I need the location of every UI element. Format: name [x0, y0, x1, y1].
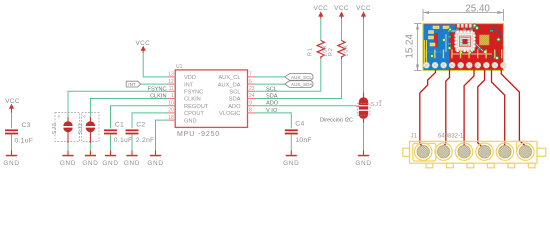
svg-text:VLOGIC: VLOGIC: [219, 111, 241, 117]
ground (under SJ1): [355, 151, 371, 167]
svg-text:9: 9: [249, 100, 252, 106]
svg-text:2.2nF: 2.2nF: [136, 137, 155, 144]
svg-text:R2: R2: [328, 47, 334, 56]
svg-text:10: 10: [168, 100, 174, 106]
svg-text:VCC: VCC: [135, 40, 150, 47]
svg-text:18: 18: [168, 115, 174, 121]
PCB board image: [423, 24, 506, 71]
ground (under C1): [102, 151, 118, 167]
svg-text:10nF: 10nF: [295, 137, 312, 144]
ground (under C2): [124, 151, 140, 167]
svg-text:SJ3: SJ3: [52, 122, 58, 134]
svg-text:AUX_DA: AUX_DA: [218, 82, 241, 88]
ground (under C3): [3, 151, 19, 167]
svg-text:VCC: VCC: [5, 98, 20, 105]
solder jumper SJ1 (3 pads): [356, 93, 382, 123]
svg-text:C4: C4: [295, 121, 304, 128]
svg-text:8: 8: [249, 108, 252, 114]
wire GND (pin 18 down): [156, 120, 168, 151]
svg-text:ADO: ADO: [266, 101, 279, 107]
resistor R2 10K: [328, 41, 349, 59]
svg-text:SDA: SDA: [229, 97, 241, 103]
svg-text:12: 12: [168, 79, 174, 85]
svg-text:GND: GND: [184, 118, 197, 124]
trace T6: [501, 70, 525, 146]
net flag AUX_SDA: [285, 81, 314, 88]
white silk bits: [446, 31, 492, 54]
svg-text:INT: INT: [184, 82, 194, 88]
svg-text:GND: GND: [60, 160, 76, 167]
svg-text:U1: U1: [176, 64, 183, 70]
svg-text:15.24: 15.24: [404, 33, 415, 58]
svg-text:SJ2: SJ2: [78, 122, 84, 134]
wire C2 to GND: [131, 134, 133, 150]
dimension 15.24 (vertical): [414, 24, 422, 71]
svg-text:0.1uF: 0.1uF: [114, 137, 133, 144]
svg-text:GND: GND: [147, 160, 163, 167]
svg-text:V IO: V IO: [266, 108, 278, 114]
power VCC (above IC): [135, 40, 150, 53]
svg-text:Dirección I2C: Dirección I2C: [320, 117, 353, 123]
svg-text:0.1uF: 0.1uF: [15, 137, 34, 144]
wire SJ1 to GND: [363, 123, 365, 151]
trace T1: [420, 70, 436, 147]
wire C4 to GND: [290, 134, 292, 150]
wire CPOUT (pin 20 to C2): [132, 113, 167, 128]
svg-text:GND: GND: [124, 160, 140, 167]
wire C3 to GND: [11, 134, 13, 150]
wire SJ2 to GND: [89, 143, 91, 150]
svg-text:SJ1: SJ1: [371, 102, 383, 108]
wire VDD (VCC to pin 13): [143, 53, 167, 77]
small parts on blue: [429, 26, 450, 46]
svg-text:C2: C2: [136, 121, 145, 128]
trace T2: [444, 70, 450, 146]
svg-text:FSYNC: FSYNC: [148, 86, 167, 92]
solder jumper SJ3: [52, 113, 79, 144]
wire AUX_DA (pin 6 to flag): [256, 83, 285, 85]
ground (under SJ2): [82, 151, 98, 167]
svg-text:640832-1: 640832-1: [438, 134, 464, 140]
wire C1 to GND: [110, 134, 112, 150]
svg-text:INT: INT: [128, 82, 136, 87]
svg-text:C1: C1: [115, 121, 124, 128]
svg-text:AUX_CL: AUX_CL: [218, 75, 240, 81]
svg-text:GND: GND: [3, 160, 19, 167]
dimension 25.40 (horizontal): [423, 9, 504, 21]
vias: [431, 24, 501, 60]
svg-text:CLKIN: CLKIN: [150, 94, 166, 100]
QFN footprint center: [456, 32, 475, 51]
capacitor C4: [285, 121, 312, 144]
wire SCL (pin 23 to R1): [256, 59, 321, 92]
wire INT (flag to pin 12): [141, 83, 167, 85]
capacitor C1: [104, 121, 132, 143]
svg-text:MPU -9250: MPU -9250: [177, 131, 220, 138]
capacitor C3: [5, 122, 33, 144]
net flag AUX_SCL: [285, 74, 313, 81]
pin numbers left: [168, 72, 174, 121]
ground (under IC pin 18): [147, 151, 163, 167]
svg-text:25.40: 25.40: [465, 4, 490, 15]
svg-text:CPOUT: CPOUT: [184, 111, 204, 117]
svg-text:23: 23: [249, 86, 255, 92]
connector J1 640832-1: [403, 134, 546, 168]
svg-text:SCL: SCL: [229, 90, 240, 96]
power VCC (above SJ1): [356, 5, 371, 19]
svg-text:VCC: VCC: [356, 5, 371, 12]
svg-text:REGOUT: REGOUT: [184, 104, 209, 110]
wire SDA (pin 24 to R2): [256, 59, 342, 99]
svg-text:SDA: SDA: [266, 94, 278, 100]
svg-text:SCL: SCL: [266, 86, 277, 92]
wire ADO (pin 9 to SJ1): [256, 105, 357, 107]
pin names left: [184, 75, 209, 124]
connector pads: [415, 143, 535, 160]
svg-text:24: 24: [249, 93, 255, 99]
wire VCC to R1: [320, 19, 322, 41]
svg-text:13: 13: [168, 72, 174, 78]
svg-text:ADO: ADO: [228, 104, 241, 110]
svg-text:VCC: VCC: [313, 5, 328, 12]
bottom pad row (10 pads): [424, 62, 507, 68]
wire CLKIN net (pin 1 to SJ2): [90, 99, 167, 118]
wire VCC to R2: [341, 19, 343, 41]
power VCC (above R1): [313, 5, 328, 19]
trace T5: [492, 70, 505, 147]
trace T3: [464, 70, 474, 147]
pin stubs left (13,12,11,1,10,20,18): [167, 77, 175, 120]
capacitor C2: [126, 121, 155, 143]
svg-text:AUX_SCL: AUX_SCL: [291, 75, 312, 80]
power VCC (left, above C3): [5, 98, 20, 113]
wire SJ3 to GND: [67, 143, 69, 150]
pin names right: [218, 75, 241, 117]
trace T4: [478, 70, 485, 147]
pin numbers right: [249, 72, 255, 114]
svg-text:C3: C3: [22, 122, 31, 129]
power VCC (above R2): [334, 5, 349, 19]
svg-text:VCC: VCC: [334, 5, 349, 12]
wire VCC to C3: [11, 113, 13, 128]
svg-text:GND: GND: [283, 160, 299, 167]
wire FSYNC net (pin 11 to SJ3): [68, 91, 167, 117]
net flag INT: [126, 81, 141, 87]
svg-text:1: 1: [171, 93, 174, 99]
wire REGOUT (pin 10 to C1): [111, 106, 168, 129]
svg-text:CLKIN: CLKIN: [184, 97, 201, 103]
svg-text:11: 11: [169, 86, 174, 92]
top edge pads: [457, 24, 476, 28]
svg-text:GND: GND: [82, 160, 98, 167]
svg-text:GND: GND: [355, 160, 371, 167]
wire AUX_CL (pin 7 to flag): [256, 76, 285, 78]
PCB traces to connector: [420, 70, 526, 147]
solder jumper SJ2: [78, 113, 99, 144]
svg-text:FSYNC: FSYNC: [184, 90, 203, 96]
svg-text:VDD: VDD: [184, 75, 196, 81]
svg-text:10K: 10K: [343, 44, 349, 57]
wire VCC to SJ1: [363, 19, 365, 93]
svg-text:7: 7: [249, 72, 252, 78]
svg-text:AUX_SDA: AUX_SDA: [291, 82, 313, 87]
svg-text:GND: GND: [102, 160, 118, 167]
wire V_IO (pin 8 to C4): [256, 113, 292, 128]
ground (under C4): [283, 151, 299, 167]
svg-text:R1: R1: [307, 47, 313, 56]
ground (under SJ3): [60, 151, 76, 167]
svg-text:J1: J1: [411, 134, 418, 140]
gold hatched pad: [480, 35, 490, 45]
resistor R1 10K: [307, 41, 328, 59]
pin stubs right (7,6,23,24,9,8): [248, 77, 256, 113]
svg-text:6: 6: [249, 79, 252, 85]
svg-text:20: 20: [168, 108, 174, 114]
op-amp/IC U1 MPU-9250 body: [175, 64, 247, 138]
yellow pin labels above pad row: [426, 50, 503, 59]
